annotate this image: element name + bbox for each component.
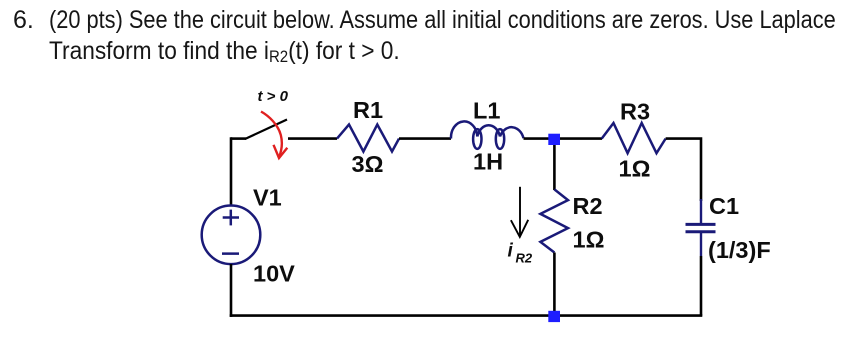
wire: R1 to L1 — [399, 137, 451, 140]
node A (blue junction square) — [548, 134, 560, 145]
wire: R3 to top-right corner and down to C1 — [666, 139, 701, 201]
svg-text:C1: C1 — [709, 193, 739, 219]
svg-text:t > 0: t > 0 — [258, 88, 289, 105]
wire: node A to R3 — [554, 137, 602, 140]
resistor R2 vertical zigzag — [540, 189, 568, 252]
resistor R3 zigzag — [602, 123, 666, 153]
wire: left rail lower (V1 bottom to bottom rail) — [230, 264, 233, 317]
wire: switch to R1 — [288, 137, 337, 140]
svg-text:R2: R2 — [516, 251, 533, 266]
svg-text:R3: R3 — [620, 99, 650, 125]
svg-text:1Ω: 1Ω — [573, 227, 605, 253]
svg-text:10V: 10V — [253, 261, 295, 287]
svg-text:1Ω: 1Ω — [619, 156, 651, 182]
resistor R1 zigzag — [337, 125, 399, 152]
current arrow iR2 — [511, 187, 528, 237]
voltage source V1 — [202, 206, 261, 265]
wire: top-left stub from left rail to switch hinge — [231, 137, 246, 140]
svg-text:R1: R1 — [353, 97, 383, 123]
svg-text:L1: L1 — [473, 98, 500, 124]
wire: node A down to R2 — [553, 139, 556, 190]
capacitor C1 — [686, 199, 716, 256]
svg-text:3Ω: 3Ω — [352, 151, 384, 177]
svg-text:1H: 1H — [473, 149, 503, 175]
red closing arrow of switch — [261, 112, 287, 159]
wire: C1 to bottom-right corner — [700, 256, 703, 316]
svg-text:i: i — [508, 241, 514, 262]
switch SW1 (open blade) — [245, 120, 287, 140]
node B (blue junction square) — [548, 311, 560, 322]
inductor L1 (three humps with loops) — [451, 121, 524, 148]
wire: left rail upper (switch down to V1 top) — [230, 137, 233, 206]
wire: L1 to node A — [524, 137, 555, 140]
label iR2 — [508, 241, 533, 266]
svg-text:(1/3)F: (1/3)F — [708, 237, 771, 263]
wire: R2 down to node B — [553, 253, 556, 316]
svg-text:V1: V1 — [253, 185, 282, 211]
svg-text:R2: R2 — [573, 193, 603, 219]
wire: bottom rail — [230, 314, 703, 317]
